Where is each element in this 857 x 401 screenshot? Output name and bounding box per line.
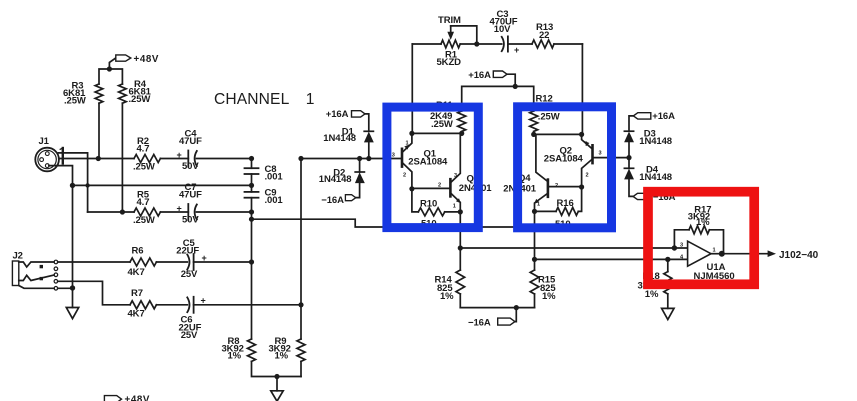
label R14: [435, 275, 455, 303]
svg-text:.001: .001: [265, 195, 284, 206]
node inv/R18: [665, 257, 670, 262]
label C3: [490, 9, 520, 55]
node -16A tap: [514, 305, 519, 310]
svg-text:1%: 1%: [542, 291, 556, 302]
svg-text:CHANNEL: CHANNEL: [214, 91, 290, 108]
resistor R4: [119, 84, 127, 103]
svg-text:3: 3: [454, 173, 457, 179]
wire J2 ring to R7: [58, 281, 130, 305]
svg-text:J2: J2: [13, 251, 23, 262]
R1 wiper arrow: [448, 26, 477, 44]
wire Q2 stage output down: [534, 211, 536, 259]
svg-text:47UF: 47UF: [179, 190, 202, 201]
label R18: [638, 271, 660, 300]
svg-text:1%: 1%: [228, 351, 242, 362]
wire main mid down: [300, 159, 302, 340]
label R9: [269, 336, 291, 361]
svg-text:J1: J1: [39, 136, 50, 147]
resistor R9: [297, 339, 305, 377]
label R13: [536, 22, 553, 41]
svg-text:4.7: 4.7: [137, 197, 150, 208]
wire noninv into op-amp: [674, 247, 692, 249]
svg-text:2: 2: [586, 173, 589, 179]
label R3: [63, 81, 86, 107]
svg-text:1N4148: 1N4148: [639, 136, 672, 147]
connector J2 (phone jack): [12, 260, 57, 290]
node pin3-cross: [85, 183, 89, 187]
svg-text:R16: R16: [557, 198, 574, 209]
node J2 sleeve: [70, 285, 75, 290]
flag +48V bottom (clipped): [104, 396, 121, 401]
wire +16A rail to R11 R12: [462, 86, 534, 111]
label R17: [688, 204, 712, 228]
resistor R6: [130, 258, 156, 266]
label Q2: [544, 146, 584, 165]
resistor R2: [98, 155, 160, 163]
node inv line start: [532, 257, 537, 262]
svg-text:10V: 10V: [494, 24, 511, 35]
label D1: [323, 127, 356, 145]
ground at J2: [66, 288, 78, 319]
svg-text:3: 3: [392, 153, 395, 159]
node C8C9 mid: [249, 183, 254, 188]
label R12: [536, 93, 560, 122]
flag +48V: [109, 55, 130, 69]
svg-text:4K7: 4K7: [128, 267, 145, 278]
node noninv/R17: [672, 245, 677, 250]
label C7: [177, 182, 203, 226]
resistor R18 3K92: [664, 259, 672, 308]
node R1 right: [474, 41, 479, 46]
svg-text:+: +: [177, 203, 182, 213]
svg-text:1: 1: [713, 248, 716, 254]
label R4: [129, 79, 152, 105]
label C6: [179, 295, 206, 341]
node C6 end: [298, 302, 303, 307]
label C5: [176, 238, 206, 280]
node C7 end: [249, 209, 254, 214]
capacitor C5: [156, 254, 251, 270]
svg-text:4K7: 4K7: [128, 309, 145, 320]
svg-text:22UF: 22UF: [176, 245, 199, 256]
connector J1 (XLR): [35, 148, 59, 172]
svg-text:2SA1084: 2SA1084: [408, 157, 448, 168]
wire C9-bottom to inverting side (passes under blue boxes): [252, 219, 535, 227]
node Q1 collector: [409, 186, 414, 191]
J1 pin 1 tick: [60, 148, 63, 164]
resistor R7: [130, 301, 156, 309]
diode D2 1N4148: [355, 159, 364, 198]
node R10/Q3 emitter: [458, 209, 463, 214]
svg-text:1%: 1%: [696, 217, 710, 228]
wire J1 shield down: [49, 166, 73, 288]
node R16/Q4 emitter: [532, 209, 537, 214]
wire +48V rail: [99, 69, 122, 84]
svg-text:1%: 1%: [440, 291, 454, 302]
node output: [719, 251, 725, 257]
resistor R5: [88, 208, 161, 216]
node +16A rail: [513, 84, 518, 89]
svg-text:.25W: .25W: [538, 112, 560, 123]
label R1: [437, 50, 462, 69]
resistor R8: [248, 339, 256, 361]
svg-text:1: 1: [406, 141, 409, 147]
node main mid: [298, 156, 303, 161]
wire inv input line: [535, 258, 668, 260]
capacitor C3: [477, 36, 532, 51]
highlight box red (around U1A): [648, 192, 754, 285]
label R15: [538, 275, 556, 303]
svg-text:3: 3: [680, 243, 683, 249]
svg-text:1N4148: 1N4148: [639, 172, 672, 183]
wire R14 R15 bottom rail: [460, 307, 534, 309]
resistor R10 510: [412, 189, 460, 216]
wire J2 sleeve to ground node: [58, 287, 73, 289]
label Q3: [459, 174, 492, 194]
capacitor C7: [160, 204, 251, 220]
wire R12 bottom: [533, 131, 535, 134]
svg-text:1: 1: [306, 91, 315, 108]
svg-text:.001: .001: [265, 172, 284, 183]
wire J1 pin2 to R2 line: [59, 158, 98, 160]
node R12 bottom: [531, 132, 536, 137]
resistor R14 825: [456, 248, 465, 308]
highlight box blue 2 (around Q2): [518, 107, 612, 228]
wire noninv input line: [460, 247, 674, 249]
svg-text:R10: R10: [420, 199, 437, 210]
svg-text:R6: R6: [132, 245, 144, 256]
node Q1 emitter: [409, 131, 414, 136]
capacitor C6: [156, 297, 301, 313]
resistor R16 510: [535, 187, 582, 215]
svg-text:J102−40: J102−40: [779, 250, 819, 261]
node R4/R5 line: [120, 209, 125, 214]
svg-text:1%: 1%: [645, 289, 659, 300]
svg-text:1N4148: 1N4148: [319, 174, 352, 185]
svg-text:3: 3: [599, 151, 602, 157]
resistor R12: [530, 111, 538, 131]
transistor Q4 2N4401: [534, 134, 581, 211]
svg-text:2: 2: [403, 173, 406, 179]
node shield-mid: [70, 183, 75, 188]
flag +16A (D1): [352, 111, 369, 132]
label R6: [128, 245, 145, 277]
svg-text:+48V: +48V: [125, 395, 151, 401]
label R8: [222, 336, 244, 361]
diode D1 1N4148: [364, 131, 373, 158]
node C5 end: [249, 259, 254, 264]
wire R8 bottom rail: [252, 361, 302, 376]
svg-text:1%: 1%: [275, 351, 289, 362]
transistor Q1 2SA1084: [402, 133, 412, 188]
svg-text:1: 1: [537, 202, 540, 208]
svg-text:.25W: .25W: [129, 94, 151, 105]
svg-text:.25W: .25W: [133, 215, 155, 226]
label D4: [639, 164, 672, 183]
svg-text:2: 2: [555, 183, 558, 189]
wire main to Q1 base: [301, 158, 402, 160]
flag -16A (D4): [633, 193, 650, 199]
node Q2 emitter: [579, 132, 584, 137]
svg-text:TRIM: TRIM: [438, 15, 461, 26]
flag +16A (rails): [493, 71, 515, 86]
svg-text:+16A: +16A: [468, 70, 491, 81]
node R11 bottom: [459, 131, 464, 136]
label Q1: [408, 149, 448, 168]
svg-text:.25W: .25W: [64, 95, 86, 106]
label C9: [265, 188, 284, 207]
svg-text:25V: 25V: [181, 330, 198, 341]
node R8R9 gnd: [274, 374, 279, 379]
svg-text:+: +: [177, 150, 182, 160]
resistor R3: [95, 84, 103, 103]
label R10: [420, 199, 437, 230]
resistor R15 825: [530, 259, 539, 307]
label R5: [133, 189, 155, 226]
svg-text:47UF: 47UF: [179, 136, 202, 147]
wire R13 to Q2 emitter node: [581, 44, 583, 134]
resistor R13: [532, 40, 582, 48]
label U1A: [694, 262, 735, 282]
svg-text:5KZD: 5KZD: [437, 57, 462, 68]
label R2: [133, 136, 155, 173]
diode D4 1N4148: [624, 158, 633, 197]
ground at R18: [662, 308, 674, 319]
flag -16A (bottom): [498, 308, 517, 326]
label D3: [639, 128, 672, 147]
diode D3 1N4148: [624, 131, 633, 157]
svg-text:−16A: −16A: [321, 195, 344, 206]
wire R11 bottom: [461, 131, 463, 133]
label Q4: [503, 173, 536, 195]
node C9 bottom branch: [249, 217, 254, 222]
wire J1 pin3 to R5 line: [59, 153, 88, 212]
svg-text:R7: R7: [131, 288, 143, 299]
label D2: [319, 168, 352, 186]
svg-text:4.7: 4.7: [137, 144, 150, 155]
label C8: [265, 164, 284, 183]
resistor R17 3K92 feedback: [674, 226, 723, 254]
label R7: [128, 288, 145, 319]
svg-text:+: +: [202, 253, 207, 263]
svg-text:.25W: .25W: [431, 119, 453, 130]
svg-text:1: 1: [453, 204, 456, 210]
svg-text:+16A: +16A: [652, 111, 675, 122]
svg-text:+48V: +48V: [134, 54, 160, 65]
highlight box blue 1 (around Q1): [387, 107, 478, 228]
svg-text:50V: 50V: [182, 161, 199, 172]
wire Q2 emitter rail: [534, 133, 582, 135]
node D3D4/Q2 base: [626, 155, 631, 160]
node R3/main: [96, 156, 101, 161]
capacitor C8: [245, 159, 259, 175]
label C4: [177, 129, 203, 173]
resistor R11: [458, 111, 466, 131]
node Q2 collector: [579, 184, 584, 189]
wire Q1 emitter rail: [412, 132, 462, 134]
wire Q1 stage output down: [459, 212, 461, 248]
svg-text:+: +: [201, 295, 206, 305]
wire R1 to Q1 emitter node: [411, 44, 413, 133]
wire R4 bottom: [121, 103, 123, 212]
label R16: [555, 198, 574, 230]
node noninv line start: [458, 245, 463, 250]
node +48V rail: [107, 66, 112, 71]
svg-text:.25W: .25W: [133, 162, 155, 173]
label R11: [430, 100, 453, 130]
wire R3 bottom: [98, 103, 100, 158]
capacitor C9: [245, 174, 259, 339]
flag +16A (D3): [629, 113, 651, 132]
potentiometer R1 5KZD: [412, 40, 477, 48]
node main/C8: [249, 156, 254, 161]
wire J2 tip to R6: [58, 261, 130, 263]
op-amp U1A NJM4560: [688, 241, 722, 266]
svg-text:25V: 25V: [181, 269, 198, 280]
node D2/main: [357, 156, 362, 161]
svg-text:+16A: +16A: [326, 109, 349, 120]
svg-text:50V: 50V: [182, 215, 199, 226]
transistor Q2 2SA1084: [582, 134, 629, 187]
node D1/main: [366, 156, 371, 161]
svg-text:22: 22: [539, 30, 549, 41]
wire shield to C8/C9 midpoint: [73, 184, 252, 186]
svg-text:2SA1084: 2SA1084: [544, 154, 584, 165]
svg-text:2: 2: [438, 183, 441, 189]
svg-text:1: 1: [585, 142, 588, 148]
svg-text:1N4148: 1N4148: [323, 133, 356, 144]
flag -16A (D2): [345, 195, 355, 201]
svg-text:+: +: [514, 45, 519, 55]
ground at R8R9: [271, 377, 283, 401]
transistor Q3 2N4401: [412, 133, 461, 212]
wire inv into op-amp: [668, 258, 692, 260]
capacitor C4: [160, 151, 251, 167]
svg-text:−16A: −16A: [468, 317, 491, 328]
wire output to J102-40 arrow: [722, 250, 776, 257]
